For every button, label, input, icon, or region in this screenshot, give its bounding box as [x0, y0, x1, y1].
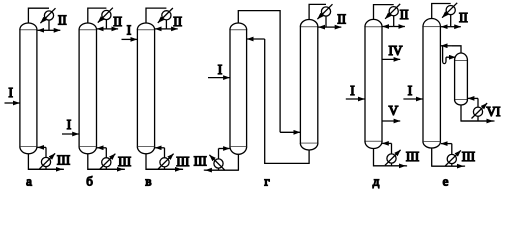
side draw V from column d — [382, 103, 400, 121]
condenser b: vapor line, exchanger, reflux + product II — [88, 8, 118, 29]
side stripper column e — [455, 53, 468, 105]
svg-text:V: V — [389, 103, 399, 118]
condenser e: vapor line, exchanger, reflux + product II — [432, 3, 461, 27]
reboiler d: bottoms line, circulation riser, exchanger, product out — [374, 143, 408, 166]
svg-text:I: I — [67, 117, 71, 132]
svg-text:г: г — [264, 174, 269, 189]
feed I into column g — [208, 62, 230, 77]
reboiler v: bottoms line, circulation riser, exchanger, product out — [146, 148, 183, 170]
svg-text:а: а — [26, 174, 32, 189]
reboiler e (main): bottoms line, circulation riser, exchanger, product out — [432, 144, 465, 167]
condenser v: vapor line, exchanger, reflux + product II — [146, 8, 178, 29]
feed I into column e — [403, 83, 422, 99]
wire: g1 overhead vapor to g2 feed point — [238, 11, 300, 133]
reboiler g (on column g1, mirrored): bottoms line, circulation riser, exchanger, product out — [204, 149, 239, 171]
svg-text:III: III — [176, 154, 189, 169]
svg-text:I: I — [218, 62, 222, 77]
svg-text:II: II — [173, 14, 182, 29]
column e (main vessel) — [423, 19, 440, 149]
reboiler a: bottoms line, circulation riser, exchanger, product out — [28, 147, 64, 169]
svg-text:д: д — [373, 174, 380, 189]
svg-text:в: в — [145, 174, 151, 189]
svg-text:III: III — [118, 154, 131, 169]
column v (vessel) — [137, 23, 154, 154]
svg-text:II: II — [113, 14, 122, 29]
svg-text:е: е — [443, 174, 449, 189]
column b (vessel) — [79, 23, 96, 154]
feed I into column b — [62, 117, 79, 134]
column d (vessel) — [365, 19, 382, 148]
svg-text:II: II — [58, 13, 67, 28]
condenser d: vapor line, exchanger, reflux + product II — [374, 4, 405, 27]
condenser g (on column g2): vapor line, exchanger, reflux + product II — [309, 4, 341, 27]
column a (vessel) — [20, 23, 37, 154]
svg-text:III: III — [57, 152, 70, 167]
column g2 (second of pair) — [300, 20, 317, 150]
reboiler b: bottoms line, circulation riser, exchanger, product out — [88, 148, 125, 170]
wire: liquid side draw from column e through U-seal into stripper — [443, 46, 456, 64]
condenser a: vapor line, exchanger, reflux + product II — [28, 8, 60, 30]
svg-text:II: II — [459, 10, 468, 25]
svg-text:VI: VI — [487, 104, 501, 119]
svg-text:III: III — [406, 149, 419, 164]
svg-text:III: III — [194, 154, 207, 169]
svg-text:I: I — [8, 85, 12, 100]
svg-text:I: I — [127, 23, 131, 38]
side draw IV from column d — [382, 43, 403, 59]
feed I into column v — [122, 23, 138, 40]
svg-text:I: I — [408, 83, 412, 98]
feed I into column d — [346, 83, 365, 99]
svg-text:I: I — [350, 83, 354, 98]
svg-text:III: III — [462, 149, 475, 164]
svg-text:II: II — [400, 7, 409, 22]
wire: stripper overhead vapor to main column e — [441, 46, 461, 53]
wire: g2 bottoms recycle to g1 top — [247, 39, 309, 163]
feed I into column a — [5, 85, 20, 103]
svg-text:б: б — [86, 174, 93, 189]
svg-text:IV: IV — [389, 43, 403, 58]
svg-text:II: II — [337, 11, 346, 26]
column g1 (first of pair) — [230, 23, 247, 154]
reboiler e (stripper): bottoms line, circulation riser, exchanger, product out — [461, 98, 495, 121]
